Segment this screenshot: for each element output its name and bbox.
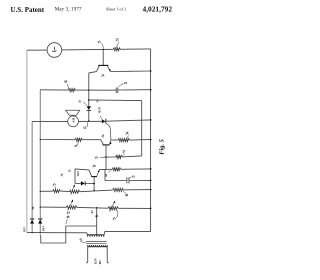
wire row y=207.5 from rail x=40 [40,206,66,208]
resistor R22 [113,48,120,51]
capacitor C25 left plate [115,88,117,94]
svg-text:SCR: SCR [97,107,102,114]
wire row y=100 from column to inner rail [89,99,142,102]
wire transformer primary left lead [86,233,89,237]
svg-text:38: 38 [104,173,109,177]
wire row y=208 to right rail [118,207,150,209]
capacitor C41 left plate [126,177,128,183]
diode CR3 pointing down [87,106,91,110]
wire Q1 emitter to right rail [110,70,151,73]
svg-text:27: 27 [122,149,127,154]
node junction right rail y=180.4 [150,180,152,182]
potentiometer R44 [66,206,77,209]
svg-text:115V: 115V [93,257,97,264]
node junction right rail y=189.6 [150,189,152,191]
diode CR5 cathode bar [30,218,34,220]
svg-text:32: 32 [83,125,88,130]
svg-text:CR2: CR2 [76,171,80,177]
potentiometer R36 [69,190,80,193]
AC line source G1 [47,43,62,58]
wire row y=157 resistor R27 to inner rail [122,156,142,157]
resistor R27 [116,155,123,158]
wire top row middle segment [62,48,113,51]
wire inner right rail [141,101,143,156]
wire horn row right segment to rail [106,120,151,121]
diode CR6 cathode bar [38,218,42,220]
potentiometer R44 wiper arrow [68,200,73,211]
node junction rail x=40 y=139.5 [40,139,41,140]
svg-text:Sheet 1 of 1: Sheet 1 of 1 [106,7,126,12]
wire row y=191 R35 to R36 [61,190,70,193]
horn speaker body circle [68,116,79,127]
svg-text:42: 42 [79,237,83,241]
node junction rail x=40 y=191.3 [40,191,41,192]
diode CR5 triangle pointing up [30,219,34,223]
resistor R40 [113,188,124,191]
SCR D1 triangle [102,119,106,123]
wire row y=90 middle segment [76,89,116,91]
diode CR2 cathode bar [84,181,86,185]
svg-text:36: 36 [59,173,64,177]
wire rail x=40 below diode CR6 [39,223,41,232]
transistor Q3 emitter column [105,145,107,170]
resistor R34 [75,138,82,141]
svg-text:4,021,792: 4,021,792 [143,4,173,13]
wire column x=88.8 upper [88,73,90,106]
wire step column x=65.8 [65,226,67,243]
wire Q1 left leg to column x=88.8 [89,72,97,73]
wire transformer tap column [96,208,98,235]
wire rail x=32 from horn row [31,121,33,218]
svg-text:41: 41 [132,174,136,179]
wire tap feed row y=226 [66,225,97,227]
svg-text:45: 45 [112,216,117,221]
svg-text:29: 29 [95,156,99,160]
wire bottom row y=232.6 [27,232,87,234]
svg-text:34: 34 [74,143,79,148]
svg-text:47: 47 [90,209,95,213]
node junction right rail y=168.9 [150,168,152,170]
node junction emitter column row y=157 [106,156,108,158]
potentiometer R45 [108,207,118,210]
svg-text:40: 40 [125,193,130,198]
resistor R28 [118,139,130,142]
wire stub row y=243 to terminal x=40.8 [41,237,66,243]
node junction bottom row x=32.1 [31,232,32,233]
wire row y=139.6 from rail x=40 [40,139,75,141]
wire loop left edge [74,169,76,184]
svg-text:HV: HV [71,118,75,124]
resistor R38 [112,168,121,171]
SCR gate lead [106,123,111,139]
wire row y=169.2 to right rail [121,168,151,170]
transistor Q2 left leg [89,170,92,176]
wire capacitor C41 to right rail [129,179,151,181]
transistor Q1 base lead [102,49,104,65]
resistor R35 [53,190,61,193]
svg-text:22: 22 [115,37,120,42]
wire capacitor row left segment [105,180,127,182]
wire stub from row y=169.4 down to capacitor row [104,169,106,180]
transformer core line 2 [86,242,107,244]
capacitor C41 right plate [128,177,130,183]
svg-text:30: 30 [64,79,69,84]
svg-text:46: 46 [31,206,36,210]
capacitor C25 right plate [117,88,119,94]
transistor Q3 left leg [101,140,104,145]
wire row y=191 from rail x=40 [40,190,52,192]
transistor Q1 left leg [96,66,99,72]
wire row y=139.6 resistor R34 to Q3 [82,139,100,141]
diode CR6 triangle pointing up [38,219,42,223]
node junction right rail y=208.4 [150,208,152,210]
svg-text:24: 24 [101,73,105,78]
node junction tap column row y=207.8 [96,207,98,209]
svg-text:43: 43 [95,214,100,219]
transformer core line 1 [86,241,107,243]
horn speaker flare [66,110,80,115]
node junction at Q1 base column [102,49,104,51]
node junction right rail y=71 [150,70,152,72]
transistor Q2 bar [91,176,97,178]
transistor Q3 collector arrow from SCR gate [110,139,111,144]
svg-text:48: 48 [66,214,71,219]
wire loop top edge to Q2 [75,169,89,170]
svg-text:37: 37 [68,168,72,173]
wire horn row to SCR [79,120,102,122]
node junction Q2 tail row y=190.4 [93,190,94,191]
SCR D1 cathode bar [105,119,107,124]
transistor Q2 tail column [93,177,95,191]
transistor Q3 bar [103,144,110,146]
node junction column x=88.8 row y=99.9 [88,99,90,101]
wire top row left segment [27,49,47,51]
node junction column x=88.8 row y=90 [88,89,90,91]
node junction column x=88.8 horn row [88,120,90,122]
node junction right rail y=139.6 [150,139,152,141]
wire diode CR2 to Q2 tail [85,183,94,185]
wire Q3 collector node to resistor R28 [111,139,118,141]
potentiometer R36 wiper arrow [71,185,75,195]
wire row y=90 right segment to rail [118,89,151,91]
node junction Q2 tail diode row [93,183,95,185]
svg-text:Fig. 5: Fig. 5 [159,138,166,154]
svg-text:CR5: CR5 [22,227,25,233]
node junction right rail y=119.9 [150,119,152,121]
wire row y=157 left segment [103,156,115,158]
wire secondary left lead with plug prong [86,245,88,262]
svg-text:25: 25 [124,81,128,85]
wire rail x=32 below diode CR5 [31,223,33,232]
resistor R30 [68,89,75,92]
transformer primary winding [88,235,104,237]
wire row y=140 to right rail [130,139,151,142]
wire left rail [26,50,28,232]
diode CR2 triangle pointing right [81,181,85,185]
svg-text:U.S. Patent: U.S. Patent [11,6,45,14]
svg-text:26: 26 [101,134,106,138]
svg-text:33: 33 [77,99,82,103]
svg-text:20: 20 [92,164,96,169]
wire right rail [150,49,152,232]
svg-text:CR6: CR6 [41,226,44,232]
transistor Q1 bar [98,64,108,66]
wire row y=207.5 middle segment [77,206,108,209]
svg-text:May 3, 1977: May 3, 1977 [55,7,82,13]
wire row y=190 to right rail [124,189,151,191]
wire rail x=40 [39,90,41,219]
svg-text:21: 21 [97,40,102,45]
transformer secondary winding [88,245,107,247]
svg-text:28: 28 [125,131,130,136]
wire transformer primary right lead [104,231,151,236]
node junction right rail y=89.7 [150,89,152,91]
potentiometer R45 wiper arrow [110,201,115,212]
label 49 terminal curl [39,234,42,236]
node junction rail x=40 y=207.1 [40,207,41,208]
wire row y=169.4 [99,168,112,170]
svg-text:35: 35 [52,182,57,187]
wire loop bottom segment to diode CR2 [75,182,81,184]
wire horn row left segment [32,120,68,122]
node junction bottom row x=40.2 [40,232,41,233]
wire column x=88.8 lower [88,110,90,121]
transistor Q2 right leg arrow [97,170,100,177]
transistor Q1 emitter arrow [107,66,110,72]
wire top row right segment [120,48,150,50]
wire row y=191 middle segment [80,190,113,192]
wire secondary right lead with plug prong [107,245,109,262]
wire row y=90 from rail x=40 [40,89,68,91]
svg-text:60~: 60~ [98,259,102,264]
